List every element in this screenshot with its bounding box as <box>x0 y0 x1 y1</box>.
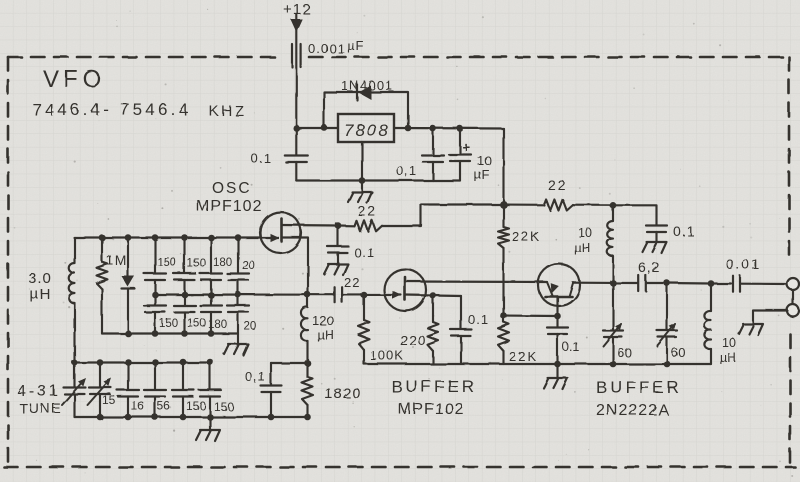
wire ground stem tank <box>237 334 239 345</box>
capacitor 0.1 OSC drain bypass plates <box>328 247 349 254</box>
enclosure dashed shield border right (interrupted by output jacks) <box>789 57 790 467</box>
ground 2N2222A base area <box>544 378 568 389</box>
variable capacitor 15 trimmer: upper wire <box>99 362 101 387</box>
capacitor 0.1 +8 bypass stem <box>655 232 657 242</box>
label 1820 <box>324 385 361 402</box>
resistor 22K upper: lead from +8 <box>502 205 504 228</box>
label MPF102 (buffer) <box>398 401 464 418</box>
wire between jacks <box>792 290 794 305</box>
node tank rail c1 <box>152 234 159 241</box>
variable capacitor 60 #2 lower stem <box>666 337 668 364</box>
inductor L1 3.0uH lower wire <box>73 303 75 362</box>
arrow on +12 input wire <box>290 19 302 32</box>
capacitor 20 upper bank 4: upper wire <box>237 238 239 274</box>
capacitor 0.1 base bypass plates <box>547 328 568 335</box>
label 150 (tune bank) <box>186 399 206 413</box>
svg-text:µH: µH <box>720 351 736 365</box>
capacitor 0.1 +8 bypass plates <box>646 226 667 233</box>
variable capacitor 60 #1 plates <box>603 331 623 338</box>
node tank rail c2 <box>181 234 188 241</box>
svg-text:150: 150 <box>187 258 206 270</box>
capacitor 150 upper bank 1 lower wire <box>154 280 156 295</box>
wire tank middle rail / main signal line <box>155 293 333 295</box>
node bypass tap 2 <box>457 125 464 132</box>
wire ground rail buffers <box>364 363 711 365</box>
capacitor 150 tune bank plates <box>199 390 221 397</box>
label 22 (collector feed) <box>548 177 568 193</box>
capacitor 56 tune bank: upper wire <box>154 362 156 390</box>
resistor 22 collector feed zigzag <box>544 200 573 211</box>
node lower rail varactor <box>125 330 132 337</box>
inductor 120uH coil <box>301 307 308 341</box>
svg-text:0.1: 0.1 <box>673 223 695 239</box>
capacitor 150 lower bank 2: upper wire <box>183 295 185 306</box>
wire output line to 0.01 <box>711 282 731 284</box>
label 0,1 (regulator output) <box>396 163 417 178</box>
svg-text:0.001: 0.001 <box>308 41 346 56</box>
svg-text:0,1: 0,1 <box>396 163 417 178</box>
svg-text:22: 22 <box>548 177 568 193</box>
node mid rail c2 <box>181 291 188 298</box>
node output line left <box>610 280 617 287</box>
capacitor 20 upper bank 4 plates <box>227 274 249 281</box>
svg-text:22K: 22K <box>509 349 538 364</box>
label 10 uF <box>474 153 491 182</box>
label 3.0 uH <box>28 270 52 303</box>
capacitor 0.1 regulator input lower wire <box>295 162 297 181</box>
capacitor 0.1 osc source: upper wire <box>270 363 272 385</box>
node 120uH/1820 junction <box>304 360 311 367</box>
node OSC drain bypass tap <box>335 222 342 229</box>
wire OSC gate line (tank top rail) <box>74 236 278 238</box>
ground tune rail <box>196 430 220 441</box>
svg-text:120: 120 <box>312 313 334 328</box>
label 22 (coupling) <box>344 275 360 290</box>
variable capacitor 4-31 TUNE: upper wire <box>73 362 75 387</box>
variable capacitor 60 #2: stem <box>666 283 668 330</box>
capacitor 150 upper bank 2 plates <box>174 274 196 281</box>
label TUNE <box>19 400 62 416</box>
node mid rail c3 <box>208 292 215 299</box>
svg-text:KHZ: KHZ <box>209 103 247 120</box>
capacitor 150 tune bank plates <box>172 390 194 397</box>
label 20 (upper bank 4) <box>242 260 255 272</box>
label 150 (lower bank 1) <box>159 318 178 330</box>
wire 22 to 10uH node <box>573 204 613 206</box>
node tune top c15 <box>125 359 132 366</box>
label 20 (lower bank 4) <box>244 321 257 333</box>
capacitor 150 lower bank 2 lower wire <box>183 312 185 334</box>
svg-text:60: 60 <box>671 345 685 360</box>
node tune bot c16 <box>125 414 132 421</box>
svg-text:µF: µF <box>474 167 489 182</box>
label 1M <box>106 252 127 268</box>
wire OSC drain to resistor <box>338 224 354 226</box>
resistor 100K: upper wire <box>363 295 365 320</box>
node tank rail c4 <box>235 234 242 241</box>
svg-text:180: 180 <box>208 319 227 331</box>
label 16 (tune bank) <box>131 399 145 413</box>
wire Q1 drain lead <box>282 224 339 227</box>
node 60#1 rail <box>610 361 617 368</box>
label frequency range <box>32 100 247 120</box>
wire +8 feed vertical <box>502 129 504 205</box>
capacitor 150 tune bank lower wire <box>182 397 184 418</box>
output jack J1 circle <box>787 278 799 290</box>
wire 22K junction vertical <box>502 248 504 316</box>
capacitor 16 tune bank plates <box>117 390 139 397</box>
wire tune top rail <box>75 361 211 363</box>
label 0.1 (base bypass) <box>562 340 579 354</box>
svg-text:7808: 7808 <box>344 121 390 140</box>
resistor 22 OSC drain <box>354 220 382 231</box>
capacitor 0.1 regulator input plates <box>285 156 308 163</box>
inductor L1 3.0uH coil <box>69 263 75 303</box>
svg-text:10: 10 <box>477 153 491 168</box>
label 22K (upper) <box>512 229 541 244</box>
label 120 uH <box>312 313 334 342</box>
label 180 (upper bank 3) <box>213 257 232 269</box>
node 60#2 rail <box>664 361 671 368</box>
varactor diode lower wire <box>127 289 129 334</box>
svg-text:180: 180 <box>213 257 232 269</box>
variable capacitor 4-31 arrow <box>62 380 84 405</box>
node tune bot c150b <box>207 414 214 421</box>
label 60 (#2) <box>671 345 685 360</box>
svg-text:+: + <box>462 139 470 155</box>
wire output line to 10uH tap <box>667 282 711 285</box>
capacitor 20 upper bank 4 lower wire <box>237 280 239 295</box>
capacitor 180 upper bank 3: upper wire <box>210 238 212 274</box>
wire ground stem below rail <box>556 364 558 377</box>
ground regulator section <box>348 192 372 203</box>
svg-text:4-31: 4-31 <box>17 383 61 400</box>
capacitor 150 upper bank 1 plates <box>144 274 166 281</box>
svg-text:60: 60 <box>617 345 631 360</box>
node tune bot var2 <box>97 414 104 421</box>
capacitor 150 tune bank: upper wire <box>209 362 211 390</box>
svg-text:220: 220 <box>400 332 426 348</box>
resistor 22K lower: upper wire <box>502 316 504 323</box>
node tune top c56 <box>180 359 187 366</box>
variable capacitor 60 #1 lower stem <box>612 337 614 364</box>
capacitor C feedthrough 0.001uF plates <box>292 44 301 67</box>
capacitor 0.1 base bypass: stem <box>556 316 558 327</box>
label + polarity <box>462 139 470 155</box>
capacitor 150 upper bank 2: upper wire <box>183 238 185 274</box>
svg-text:0.1: 0.1 <box>251 151 272 166</box>
ground output jack <box>739 324 763 335</box>
wire +8 rail right <box>504 203 545 205</box>
svg-text:6,2: 6,2 <box>638 259 660 275</box>
variable capacitor 4-31 lower wire <box>73 394 75 417</box>
svg-text:0.1: 0.1 <box>468 312 489 327</box>
label 100K <box>370 348 404 363</box>
variable capacitor 15 lower wire <box>99 394 101 417</box>
varactor diode: upper wire <box>127 238 129 277</box>
capacitor 56 tune bank lower wire <box>154 397 156 418</box>
arrow buffer gate <box>393 291 402 299</box>
node tune bot c150a <box>180 414 187 421</box>
resistor R1 1M lower wire <box>101 289 103 334</box>
label 150 (tune bank) <box>214 400 234 414</box>
wire 7808 input segment <box>296 127 338 129</box>
svg-text:22: 22 <box>358 203 378 219</box>
node junction diode anode <box>321 124 328 131</box>
capacitor 150 tune bank lower wire <box>209 397 211 418</box>
node 7808 output <box>405 125 412 132</box>
label 4-31 <box>17 383 61 400</box>
label VFO title <box>43 66 106 93</box>
wire 6.2 to node <box>647 282 668 284</box>
wire base line to 2N2222A <box>504 314 558 317</box>
node tune top var2 <box>97 359 104 366</box>
label 6,2 <box>638 259 660 275</box>
node junction +12/bypass <box>293 125 300 132</box>
node 7808 ground <box>359 177 366 184</box>
transistor Q3 collector diagonal <box>569 283 573 297</box>
resistor 100K lower wire <box>363 350 365 364</box>
svg-text:µH: µH <box>574 241 590 255</box>
transistor Q1 MPF102 circle <box>260 212 301 253</box>
node main line osc source junction <box>304 291 311 298</box>
label 150 (lower bank 2) <box>187 318 206 330</box>
resistor R1 1M: upper wire <box>101 238 103 263</box>
label 7808 <box>344 121 390 140</box>
node tune top c16 <box>152 359 159 366</box>
resistor 1820 zigzag <box>302 377 313 405</box>
node tune top c150a <box>207 359 214 366</box>
svg-text:150: 150 <box>159 318 178 330</box>
variable capacitor 4-31 plates <box>64 388 86 395</box>
variable capacitor 60 #1 arrow <box>603 324 621 346</box>
label 220 <box>400 332 426 348</box>
node tune top corner <box>72 360 78 366</box>
capacitor 22 coupling plates <box>335 287 343 302</box>
wire ground stem 7808 <box>361 181 363 193</box>
svg-text:BUFFER: BUFFER <box>596 378 682 397</box>
wire regulator ground rail <box>296 179 460 181</box>
wire 0.01 to output jack <box>740 283 788 285</box>
node lower rail c1 <box>152 330 159 337</box>
output jack J2 circle <box>787 305 799 317</box>
inductor 120uH: upper wire <box>306 295 308 308</box>
capacitor 0.1 base bypass lower stem <box>556 334 558 364</box>
label 0.1 (+8 bypass) <box>673 223 695 239</box>
transistor Q3 emitter diagonal <box>547 282 553 296</box>
svg-text:10: 10 <box>578 226 592 240</box>
capacitor 0.1 buffer source plates <box>451 330 472 337</box>
capacitor 0.1 regulator input: wire <box>295 128 297 155</box>
capacitor 0.01 plates <box>733 276 740 292</box>
node lower rail c2 <box>181 330 188 337</box>
capacitor 10uF electrolytic: wire <box>459 129 461 155</box>
wire Q3 base stem <box>556 297 558 317</box>
svg-text:150: 150 <box>186 399 206 413</box>
svg-text:1M: 1M <box>106 252 127 268</box>
svg-text:0.1: 0.1 <box>354 245 375 260</box>
label 2N2222A <box>596 402 670 419</box>
svg-text:10: 10 <box>722 336 736 350</box>
svg-text:TUNE: TUNE <box>19 400 62 416</box>
label 0.1 (regulator input) <box>251 151 272 166</box>
capacitor 150 tune bank: upper wire <box>182 362 184 390</box>
inductor 10uH output wires <box>710 284 712 365</box>
variable capacitor 60 #1 arrowhead <box>615 323 622 330</box>
wire 7808 ground pin <box>361 142 363 181</box>
resistor 22K lower wire <box>502 351 504 364</box>
svg-text:7446.4- 7546.4: 7446.4- 7546.4 <box>32 100 191 119</box>
wire diode loop <box>324 92 408 128</box>
wire Q2 source lead <box>405 294 433 297</box>
node base divider tap <box>500 312 507 319</box>
label MPF102 (osc) <box>196 198 262 215</box>
resistor 220 lower wire <box>432 351 434 364</box>
capacitor 150 lower bank 1 lower wire <box>154 312 156 334</box>
resistor R1 1M zigzag <box>97 262 108 289</box>
capacitor 0.1 osc source plates <box>261 386 282 393</box>
wire coupling cap to buffer gate <box>342 294 401 296</box>
resistor 22K upper zigzag <box>498 227 509 248</box>
node bypass tap 1 <box>430 125 437 132</box>
label 0.1 (buffer source) <box>468 312 489 327</box>
capacitor 180 upper bank 3 lower wire <box>210 280 212 295</box>
label OSC <box>212 180 252 197</box>
wire ground stem tune <box>209 417 211 429</box>
label 10 uH (output) <box>720 336 736 365</box>
capacitor 0.1 regulator output lower wire <box>432 162 434 181</box>
svg-text:0.01: 0.01 <box>726 256 761 272</box>
variable capacitor 15 arrow <box>88 380 110 405</box>
label 22 (osc drain resistor) <box>358 203 378 219</box>
svg-text:0.1: 0.1 <box>562 340 579 354</box>
ground OSC drain bypass <box>324 264 348 275</box>
label 1N4001 <box>341 78 394 93</box>
label 0.01 <box>726 256 761 272</box>
wire +12 input vertical <box>295 14 297 128</box>
svg-text:56: 56 <box>157 399 171 413</box>
svg-text:20: 20 <box>242 260 255 272</box>
svg-text:MPF102: MPF102 <box>398 401 464 418</box>
label 180 (lower bank 3) <box>208 319 227 331</box>
regulator U1 7808 box <box>338 114 394 142</box>
capacitor 56 tune bank plates <box>144 390 166 397</box>
node 2N2222A base stem <box>554 313 561 320</box>
svg-text:15: 15 <box>102 393 116 407</box>
transistor Q2 MPF102 buffer circle <box>384 269 426 311</box>
capacitor 180 upper bank 3 plates <box>200 274 222 281</box>
svg-text:MPF102: MPF102 <box>196 198 262 215</box>
variable capacitor 15 arrowhead <box>104 378 112 386</box>
node 0.1 bottom rail <box>268 414 275 421</box>
capacitor 150 lower bank 2 plates <box>174 306 196 313</box>
capacitor 150 lower bank 1 plates <box>144 306 166 313</box>
svg-text:150: 150 <box>157 257 176 269</box>
label 60 (#1) <box>617 345 631 360</box>
enclosure dashed shield border (top, interrupted by feedthrough cap) <box>8 56 789 59</box>
node base bypass rail <box>554 361 561 368</box>
wire Q2 drain line to 2N2222A emitter <box>405 280 547 283</box>
variable capacitor 4-31 arrowhead <box>78 378 86 386</box>
svg-text:22: 22 <box>344 275 360 290</box>
svg-text:3.0: 3.0 <box>28 270 52 287</box>
wire Q3 collector to output node <box>573 282 613 284</box>
node trimmer2 tap <box>664 280 671 287</box>
node 1820 bottom rail <box>304 414 311 421</box>
node mid rail c4 <box>235 291 242 298</box>
resistor 1820 wires <box>306 363 308 417</box>
svg-text:20: 20 <box>244 321 257 333</box>
inductor 10uH output coil <box>704 311 711 349</box>
capacitor 20 lower bank 4 plates <box>227 306 249 313</box>
ground +8 bypass <box>643 242 667 253</box>
svg-text:OSC: OSC <box>212 180 252 197</box>
svg-text:22K: 22K <box>512 229 541 244</box>
diode D1 1N4001 symbol <box>357 84 371 100</box>
svg-text:µH: µH <box>30 286 51 303</box>
capacitor 0.1 buffer source lower wire <box>460 336 462 364</box>
svg-text:µF: µF <box>347 38 364 53</box>
label BUFFER (mpf102) <box>391 377 477 396</box>
svg-text:1820: 1820 <box>324 385 361 402</box>
resistor 220 zigzag <box>428 322 439 351</box>
variable capacitor 60 #2 arrowhead <box>669 323 676 330</box>
node +8 distribution junction <box>500 201 508 209</box>
capacitor 0.1 regulator output plates <box>422 156 444 163</box>
capacitor 6.2 plates <box>638 275 646 291</box>
label BUFFER (2n2222a) <box>596 378 682 397</box>
capacitor 20 lower bank 4: upper wire <box>237 295 239 306</box>
node output coil tap <box>708 280 715 287</box>
varactor diode symbol <box>122 276 135 289</box>
label 0.1 (osc drain bypass) <box>354 245 375 260</box>
inductor L1 3.0uH: upper wire <box>73 238 75 264</box>
node tank rail varactor <box>125 234 132 241</box>
label 15 <box>102 393 116 407</box>
transistor Q3 2N2222A circle <box>538 264 580 306</box>
capacitor 150 upper bank 1: upper wire <box>154 238 156 274</box>
resistor 100K zigzag <box>359 320 370 350</box>
capacitor 180 lower bank 3 lower wire <box>210 312 212 334</box>
node tune bot c56 <box>152 414 159 421</box>
node +12 supply label <box>283 1 311 18</box>
svg-text:100K: 100K <box>370 348 404 363</box>
ground tank lower rail <box>224 344 248 355</box>
inductor 10uH collector choke coil <box>607 221 613 256</box>
node buffer source junction <box>430 292 437 299</box>
node tank rail 1M <box>99 234 106 241</box>
wire source junction to 0.1 <box>433 294 461 297</box>
svg-text:VFO: VFO <box>43 66 106 93</box>
svg-text:2N2222A: 2N2222A <box>596 402 670 419</box>
svg-text:BUFFER: BUFFER <box>391 377 477 396</box>
variable capacitor 60 #2 arrow <box>657 324 675 346</box>
node tank rail c3 <box>208 234 215 241</box>
wire tune bottom rail <box>75 416 308 418</box>
label 56 (tune bank) <box>157 399 171 413</box>
wire Q1 source lead <box>282 238 309 295</box>
wire junction to 0.1 cap <box>271 362 308 364</box>
label 0,1 (osc source) <box>245 369 266 384</box>
inductor 10uH collector choke wires <box>612 205 614 283</box>
wire tank lower rail <box>102 332 238 334</box>
resistor 22K lower zigzag <box>498 322 509 351</box>
variable capacitor 15 plates <box>89 388 111 395</box>
svg-text:16: 16 <box>131 399 145 413</box>
capacitor 10uF plates <box>449 155 471 162</box>
capacitor 180 lower bank 3 plates <box>200 306 222 313</box>
label 22K (lower) <box>509 349 538 364</box>
